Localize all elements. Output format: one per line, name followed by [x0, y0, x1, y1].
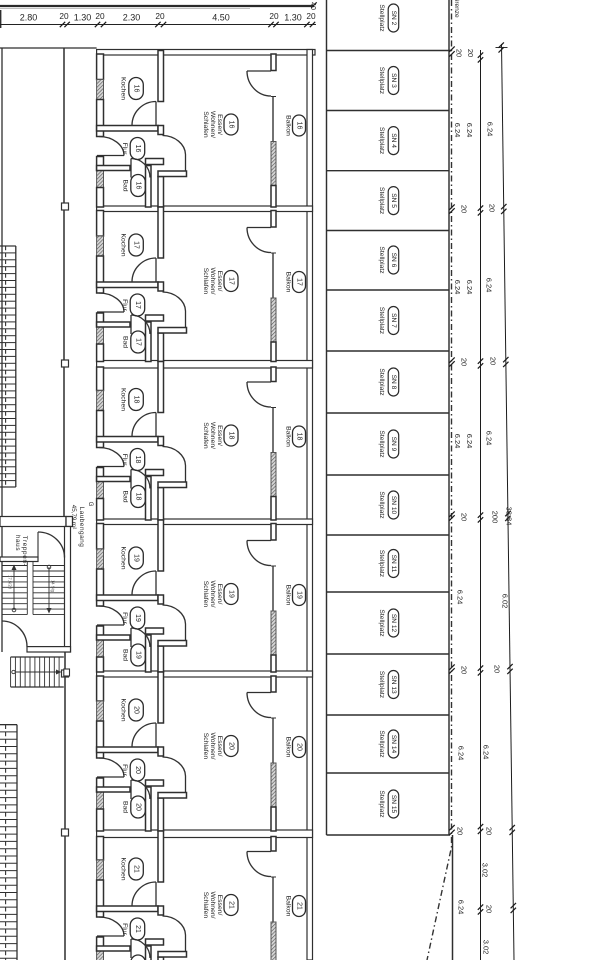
- dim A tick y829: [478, 824, 483, 834]
- balcony door apt 21: [247, 852, 271, 877]
- living room west wall apt 16 lower: [158, 177, 164, 208]
- label bath apt 17: [122, 331, 146, 353]
- parking divider 2: [327, 170, 449, 172]
- balcony window apt 18: [271, 408, 276, 453]
- top dim label 20 c: [155, 11, 165, 21]
- svg-text:21: 21: [134, 925, 141, 933]
- west wall solid apt 19 lower: [97, 657, 104, 672]
- west wall solid apt 21 lower-mid: [97, 937, 104, 951]
- laubengang column 1: [62, 203, 69, 210]
- svg-text:G: G: [87, 502, 94, 507]
- dim label 20 at y669: [493, 665, 502, 673]
- bath east wall apt 19: [146, 635, 152, 672]
- svg-text:Balkon: Balkon: [285, 585, 292, 606]
- dim label 20 at y831: [485, 827, 494, 835]
- label treppenhaus: [14, 535, 28, 566]
- exterior stair nub: [64, 669, 70, 676]
- west wall solid apt 16 lower-mid: [97, 157, 104, 171]
- parking divider 11: [327, 714, 449, 716]
- dim label 6.24 at y753: [457, 746, 466, 761]
- dim label 3.02 at y947: [482, 940, 491, 955]
- svg-text:19: 19: [228, 590, 235, 598]
- column at laubengang end wall: [66, 517, 73, 527]
- svg-text:16: 16: [296, 122, 303, 130]
- label hall apt 18: [121, 449, 145, 471]
- bath east wall apt 18: [146, 477, 152, 521]
- balcony door apt 18: [247, 382, 271, 407]
- dim label 38.84 overall: [505, 507, 514, 526]
- balcony door apt 19: [247, 541, 271, 566]
- svg-text:4.50: 4.50: [212, 13, 230, 23]
- top dim label 1.30 b: [284, 13, 302, 23]
- living room east wall apt 19 upper: [271, 524, 276, 541]
- label living room apt 17: [202, 267, 238, 294]
- svg-text:Flur: Flur: [121, 299, 128, 311]
- svg-text:Stellplatz: Stellplatz: [378, 671, 385, 699]
- svg-text:Stellplatz: Stellplatz: [378, 730, 385, 758]
- kitchen south wall apt 21: [97, 906, 158, 912]
- west wall solid apt 16 upper: [97, 54, 104, 80]
- living room east wall apt 21 upper: [271, 837, 276, 852]
- dim label 6.02 at y601: [501, 594, 510, 609]
- building north wall: [97, 50, 315, 56]
- parking divider 3: [327, 230, 449, 232]
- svg-text:Stellplatz: Stellplatz: [378, 246, 385, 274]
- parking divider 9: [327, 591, 449, 593]
- stair flight arrow left: [12, 565, 17, 612]
- svg-text:17: 17: [228, 277, 235, 285]
- svg-text:19: 19: [133, 554, 140, 562]
- svg-text:20: 20: [95, 11, 105, 21]
- svg-text:Stellplatz: Stellplatz: [378, 368, 385, 396]
- svg-text:16: 16: [228, 121, 235, 129]
- site west edge line: [1, 48, 3, 652]
- svg-text:45,79 m²: 45,79 m²: [70, 505, 77, 529]
- living room door apt 16: [163, 136, 186, 172]
- treppenhaus bottom wall: [27, 647, 71, 652]
- parking north divider to boundary: [327, 50, 453, 52]
- label kitchen apt 21: [120, 857, 144, 880]
- label kitchen apt 18: [120, 388, 144, 411]
- bath east wall apt 16: [146, 166, 152, 208]
- svg-text:2.30: 2.30: [123, 13, 141, 23]
- kitchen east wall apt 21 upper: [158, 831, 164, 882]
- bath north wall apt 21: [97, 946, 130, 951]
- dim label 6.24 at y441: [453, 434, 462, 449]
- top dim label 20 b: [95, 11, 105, 21]
- svg-text:Wohnen/: Wohnen/: [209, 267, 216, 294]
- hall niche wall apt 19: [146, 628, 164, 634]
- svg-text:SN 6: SN 6: [390, 253, 397, 268]
- svg-text:Schlafen: Schlafen: [202, 581, 209, 608]
- svg-text:20: 20: [155, 11, 165, 21]
- label hall apt 17: [121, 294, 145, 316]
- label bath apt 21: [122, 955, 146, 965]
- bath north wall apt 19: [97, 635, 130, 640]
- dim label 20 at y53: [455, 49, 464, 57]
- balcony door apt 16: [247, 71, 271, 96]
- kitchen east wall apt 17 upper: [158, 207, 164, 258]
- dim label 6.24 at y287: [465, 280, 474, 295]
- svg-text:Essen/: Essen/: [216, 425, 223, 446]
- dim B tick y209: [501, 204, 506, 214]
- svg-text:21: 21: [133, 865, 140, 873]
- top dim label 2.80: [20, 13, 38, 23]
- bath window apt 19: [97, 640, 104, 657]
- svg-text:18: 18: [296, 433, 303, 441]
- balcony door apt 17: [247, 228, 271, 253]
- label hall apt 16: [121, 138, 145, 160]
- svg-text:SN 3: SN 3: [390, 73, 397, 88]
- parking stall SN 15: [378, 790, 399, 818]
- svg-text:Treppen-: Treppen-: [21, 536, 28, 567]
- bath north wall apt 18: [97, 477, 130, 482]
- dim label 20 at y670: [460, 666, 469, 674]
- balcony window apt 16: [271, 97, 276, 142]
- svg-text:Flur: Flur: [121, 454, 128, 466]
- svg-text:Kochen: Kochen: [120, 698, 127, 721]
- dim A tick y517: [478, 512, 483, 522]
- svg-text:18: 18: [134, 456, 141, 464]
- balcony parapet window apt 21: [271, 922, 276, 965]
- svg-text:Essen/: Essen/: [216, 114, 223, 135]
- label living room apt 21: [202, 891, 238, 918]
- dim label 20 at y209: [460, 205, 469, 213]
- svg-text:Bad: Bad: [122, 179, 129, 191]
- dimension line A: [480, 50, 482, 960]
- dim label 6.24 at y130: [453, 123, 462, 138]
- svg-text:SN 7: SN 7: [390, 313, 397, 328]
- svg-text:20: 20: [488, 204, 497, 212]
- svg-text:200: 200: [491, 511, 500, 524]
- kitchen east wall stub apt 21: [158, 906, 164, 915]
- entrance door apt 20: [97, 758, 124, 777]
- svg-text:3.02: 3.02: [481, 863, 490, 878]
- dim label 20 at y362: [460, 358, 469, 366]
- kitchen east wall stub apt 17: [158, 282, 164, 291]
- svg-text:SN 11: SN 11: [390, 555, 397, 573]
- dim B top end tick: [496, 42, 508, 52]
- label living room apt 19: [202, 580, 238, 607]
- svg-text:21: 21: [296, 902, 303, 910]
- label kitchen apt 16: [120, 77, 144, 100]
- living room door apt 21: [163, 916, 186, 952]
- kitchen door apt 16: [132, 102, 156, 126]
- bath door apt 19: [131, 628, 150, 647]
- kitchen door apt 19: [132, 571, 156, 595]
- kitchen east wall apt 16 upper: [158, 51, 164, 102]
- dim label 20 at y208: [488, 204, 497, 212]
- dim label 20 at y361: [489, 357, 498, 365]
- small dim 40 near balcony corner: [309, 2, 316, 10]
- parking divider 1: [327, 110, 449, 112]
- svg-text:Stellplatz: Stellplatz: [378, 491, 385, 519]
- balcony parapet window apt 19: [271, 611, 276, 655]
- svg-text:6.24: 6.24: [485, 431, 494, 446]
- living room west wall apt 17 lower: [158, 333, 164, 362]
- living room west wall apt 18 lower: [158, 488, 164, 521]
- laubengang column 4: [62, 829, 69, 836]
- svg-text:SN 8: SN 8: [390, 375, 397, 390]
- top dim label 2.30: [123, 13, 141, 23]
- svg-text:SN 4: SN 4: [390, 133, 397, 148]
- svg-text:17,5/28: 17,5/28: [8, 575, 13, 590]
- svg-text:16: 16: [135, 182, 142, 190]
- kitchen window apt 17: [97, 236, 104, 256]
- parking stall SN 3: [378, 67, 399, 95]
- bath north wall apt 17: [97, 322, 130, 327]
- svg-text:40: 40: [309, 2, 316, 10]
- dim A tick y57: [478, 52, 483, 62]
- hall niche wall apt 18: [146, 470, 164, 476]
- kitchen east wall apt 18 upper: [158, 362, 164, 413]
- dim label 200 at y517: [491, 511, 500, 524]
- kitchen window apt 16: [97, 80, 104, 100]
- svg-text:20: 20: [485, 905, 494, 913]
- parking stall SN 4: [378, 127, 399, 155]
- stair treads: [2, 562, 65, 615]
- svg-text:38.84: 38.84: [505, 507, 514, 526]
- parking divider 12: [327, 772, 449, 774]
- svg-text:Stellplatz: Stellplatz: [378, 127, 385, 155]
- svg-text:Balkon: Balkon: [285, 896, 292, 917]
- svg-text:SN 13: SN 13: [390, 675, 397, 694]
- living room west wall apt 20 lower: [158, 798, 164, 831]
- label kitchen apt 19: [120, 546, 144, 569]
- svg-text:6.24: 6.24: [486, 122, 495, 137]
- living room east wall apt 16 upper: [271, 54, 276, 71]
- svg-text:Flur: Flur: [121, 612, 128, 624]
- svg-text:SN 15: SN 15: [390, 795, 397, 814]
- label hall apt 19: [121, 607, 145, 629]
- kitchen door apt 17: [132, 258, 156, 282]
- svg-text:20: 20: [59, 11, 69, 21]
- label balcony apt 17: [285, 272, 306, 293]
- svg-text:20: 20: [455, 49, 464, 57]
- svg-text:6.24: 6.24: [485, 278, 494, 293]
- bath window apt 18: [97, 482, 104, 499]
- party wall apartments 18/19: [97, 519, 313, 525]
- living room door apt 20: [163, 757, 186, 793]
- svg-text:Essen/: Essen/: [216, 895, 223, 916]
- west wall solid apt 19 upper: [97, 524, 104, 550]
- svg-text:20: 20: [460, 358, 469, 366]
- party wall apartments 17/18: [97, 361, 313, 369]
- living room west wall apt 19 lower: [158, 646, 164, 672]
- svg-text:Balkon: Balkon: [285, 737, 292, 758]
- kitchen south wall apt 19: [97, 595, 158, 601]
- svg-text:Schlafen: Schlafen: [202, 111, 209, 138]
- svg-text:20: 20: [493, 665, 502, 673]
- roof edge line above plan: [0, 6, 314, 9]
- svg-text:Flur: Flur: [121, 923, 128, 935]
- hall niche wall apt 17: [146, 315, 164, 321]
- dim boundary tick y516: [449, 511, 454, 520]
- svg-text:Schlafen: Schlafen: [202, 892, 209, 919]
- svg-text:20: 20: [135, 803, 142, 811]
- living room east wall apt 18 upper: [271, 367, 276, 382]
- balcony window apt 21: [271, 877, 276, 922]
- living room door apt 18: [163, 447, 186, 483]
- label balcony apt 20: [285, 737, 306, 758]
- svg-text:Bad: Bad: [122, 649, 129, 661]
- parking divider 8: [327, 534, 449, 536]
- west wall solid apt 18 lower: [97, 499, 104, 521]
- kitchen east wall stub apt 16: [158, 126, 164, 135]
- dimension line start tick left edge: [0, 10, 2, 28]
- label living room apt 20: [202, 732, 238, 759]
- svg-text:20: 20: [485, 827, 494, 835]
- dim label 6.24 at y287: [453, 280, 462, 295]
- parking divider 5: [327, 350, 449, 352]
- kitchen door apt 21: [132, 882, 156, 906]
- svg-text:Stellplatz: Stellplatz: [378, 550, 385, 578]
- living room door stub apt 17: [158, 328, 187, 334]
- dim A tick y909: [478, 904, 483, 914]
- parking stall SN 2: [378, 4, 399, 32]
- hall niche wall apt 21: [146, 939, 164, 945]
- living room west wall apt 21 lower: [158, 957, 164, 965]
- west wall solid apt 17 lower-mid: [97, 313, 104, 327]
- fence line lower right: [452, 835, 454, 960]
- laubengang column 3: [62, 670, 69, 677]
- top dimension chain line: [0, 24, 316, 26]
- west wall solid apt 20 mid: [97, 721, 104, 758]
- kitchen south wall apt 20: [97, 747, 158, 753]
- svg-text:19: 19: [296, 591, 303, 599]
- dim boundary tick y669: [449, 664, 454, 673]
- balcony parapet window apt 18: [271, 453, 276, 497]
- label bath apt 16: [122, 175, 146, 197]
- svg-text:18: 18: [133, 396, 140, 404]
- parking stall SN 8: [378, 368, 399, 396]
- bath window apt 16: [97, 171, 104, 188]
- entrance door apt 18: [97, 448, 124, 467]
- kitchen south wall apt 16: [97, 126, 158, 132]
- svg-text:Bad: Bad: [122, 336, 129, 348]
- svg-text:Essen/: Essen/: [216, 584, 223, 605]
- dim boundary tick y209: [449, 204, 454, 213]
- svg-text:Stellplatz: Stellplatz: [378, 67, 385, 95]
- living room door stub apt 18: [158, 482, 187, 488]
- svg-text:18: 18: [135, 493, 142, 501]
- balcony parapet window apt 17: [271, 298, 276, 342]
- dim label 6.24 at y441: [465, 434, 474, 449]
- kitchen door apt 18: [132, 413, 156, 437]
- svg-text:20: 20: [228, 742, 235, 750]
- dimension line B: [502, 44, 515, 960]
- living room east wall apt 20 upper: [271, 676, 276, 692]
- bath east wall apt 17: [146, 322, 152, 362]
- svg-text:Stellplatz: Stellplatz: [378, 790, 385, 818]
- svg-text:16: 16: [133, 85, 140, 93]
- svg-text:SN 10: SN 10: [390, 496, 397, 515]
- svg-text:Stellplatz: Stellplatz: [378, 609, 385, 637]
- railing ramp upper left: [0, 246, 16, 487]
- west wall solid apt 19 lower-mid: [97, 626, 104, 640]
- top dim ticks 20 at x100: [95, 22, 106, 27]
- svg-text:20: 20: [269, 11, 279, 21]
- dim label 3.02 at y870: [481, 863, 490, 878]
- label balcony apt 21: [285, 896, 306, 917]
- kitchen south wall apt 17: [97, 282, 158, 288]
- laubengang north edge line: [0, 47, 97, 49]
- top dim label 20 e: [306, 11, 316, 21]
- living room door stub apt 19: [158, 641, 187, 647]
- svg-text:SN 14: SN 14: [390, 735, 397, 754]
- svg-text:Grenze: Grenze: [453, 0, 460, 18]
- kitchen east wall stub apt 18: [158, 437, 164, 446]
- svg-text:19: 19: [134, 614, 141, 622]
- west wall solid apt 17 lower: [97, 344, 104, 362]
- svg-text:3.02: 3.02: [482, 940, 491, 955]
- label kitchen apt 20: [120, 698, 144, 721]
- svg-text:1.30: 1.30: [74, 13, 92, 23]
- laubengang south end wall: [0, 517, 66, 527]
- svg-text:Essen/: Essen/: [216, 271, 223, 292]
- label living room apt 18: [202, 422, 238, 449]
- svg-text:Laubengang: Laubengang: [78, 507, 85, 548]
- entrance door apt 19: [97, 606, 124, 625]
- svg-text:Balkon: Balkon: [285, 272, 292, 293]
- dim label 20 at y517: [460, 513, 469, 521]
- dim B tick y516: [505, 511, 510, 521]
- entrance door apt 17: [97, 293, 124, 312]
- parking stall SN 11: [378, 550, 399, 578]
- top dim ticks 20 at x160: [155, 22, 166, 27]
- exterior stair flight: [11, 657, 64, 687]
- stair annotation left: [8, 575, 13, 590]
- bath north wall apt 16: [97, 166, 130, 171]
- svg-text:SN 12: SN 12: [390, 614, 397, 633]
- kitchen east wall stub apt 19: [158, 595, 164, 604]
- property boundary Grenze dash-dot line: [427, 0, 452, 960]
- dim tick boundary bottom: [449, 825, 454, 835]
- west wall solid apt 20 lower: [97, 809, 104, 831]
- top dim label 4.50: [212, 13, 230, 23]
- parking divider 7: [327, 474, 449, 476]
- west wall solid apt 17 mid: [97, 256, 104, 293]
- svg-text:1.30: 1.30: [284, 13, 302, 23]
- dim label 6.24 at y438: [485, 431, 494, 446]
- kitchen window apt 19: [97, 549, 104, 569]
- parking stall SN 10: [378, 491, 399, 519]
- bath door apt 16: [131, 159, 150, 178]
- svg-text:SN 9: SN 9: [390, 437, 397, 452]
- bath door apt 18: [131, 470, 150, 489]
- dim B tick y908: [511, 903, 516, 913]
- svg-text:20: 20: [460, 513, 469, 521]
- svg-text:20: 20: [306, 11, 316, 21]
- svg-text:2.80: 2.80: [20, 13, 38, 23]
- svg-text:20: 20: [133, 706, 140, 714]
- dim tick boundary top: [449, 46, 454, 56]
- svg-text:6.24: 6.24: [453, 434, 462, 449]
- parking divider 6: [327, 412, 449, 414]
- svg-text:20: 20: [460, 666, 469, 674]
- label balcony apt 19: [285, 585, 306, 606]
- dim A tick y670: [478, 665, 483, 675]
- svg-text:19: 19: [135, 651, 142, 659]
- dim label 6.24 at y130: [465, 123, 474, 138]
- balcony window apt 19: [271, 566, 276, 611]
- west wall solid apt 19 mid: [97, 569, 104, 606]
- svg-text:6.24: 6.24: [453, 123, 462, 138]
- kitchen east wall stub apt 20: [158, 747, 164, 756]
- svg-text:6.24: 6.24: [457, 746, 466, 761]
- dim label 20 at y831: [456, 827, 465, 835]
- label bath apt 19: [122, 644, 146, 666]
